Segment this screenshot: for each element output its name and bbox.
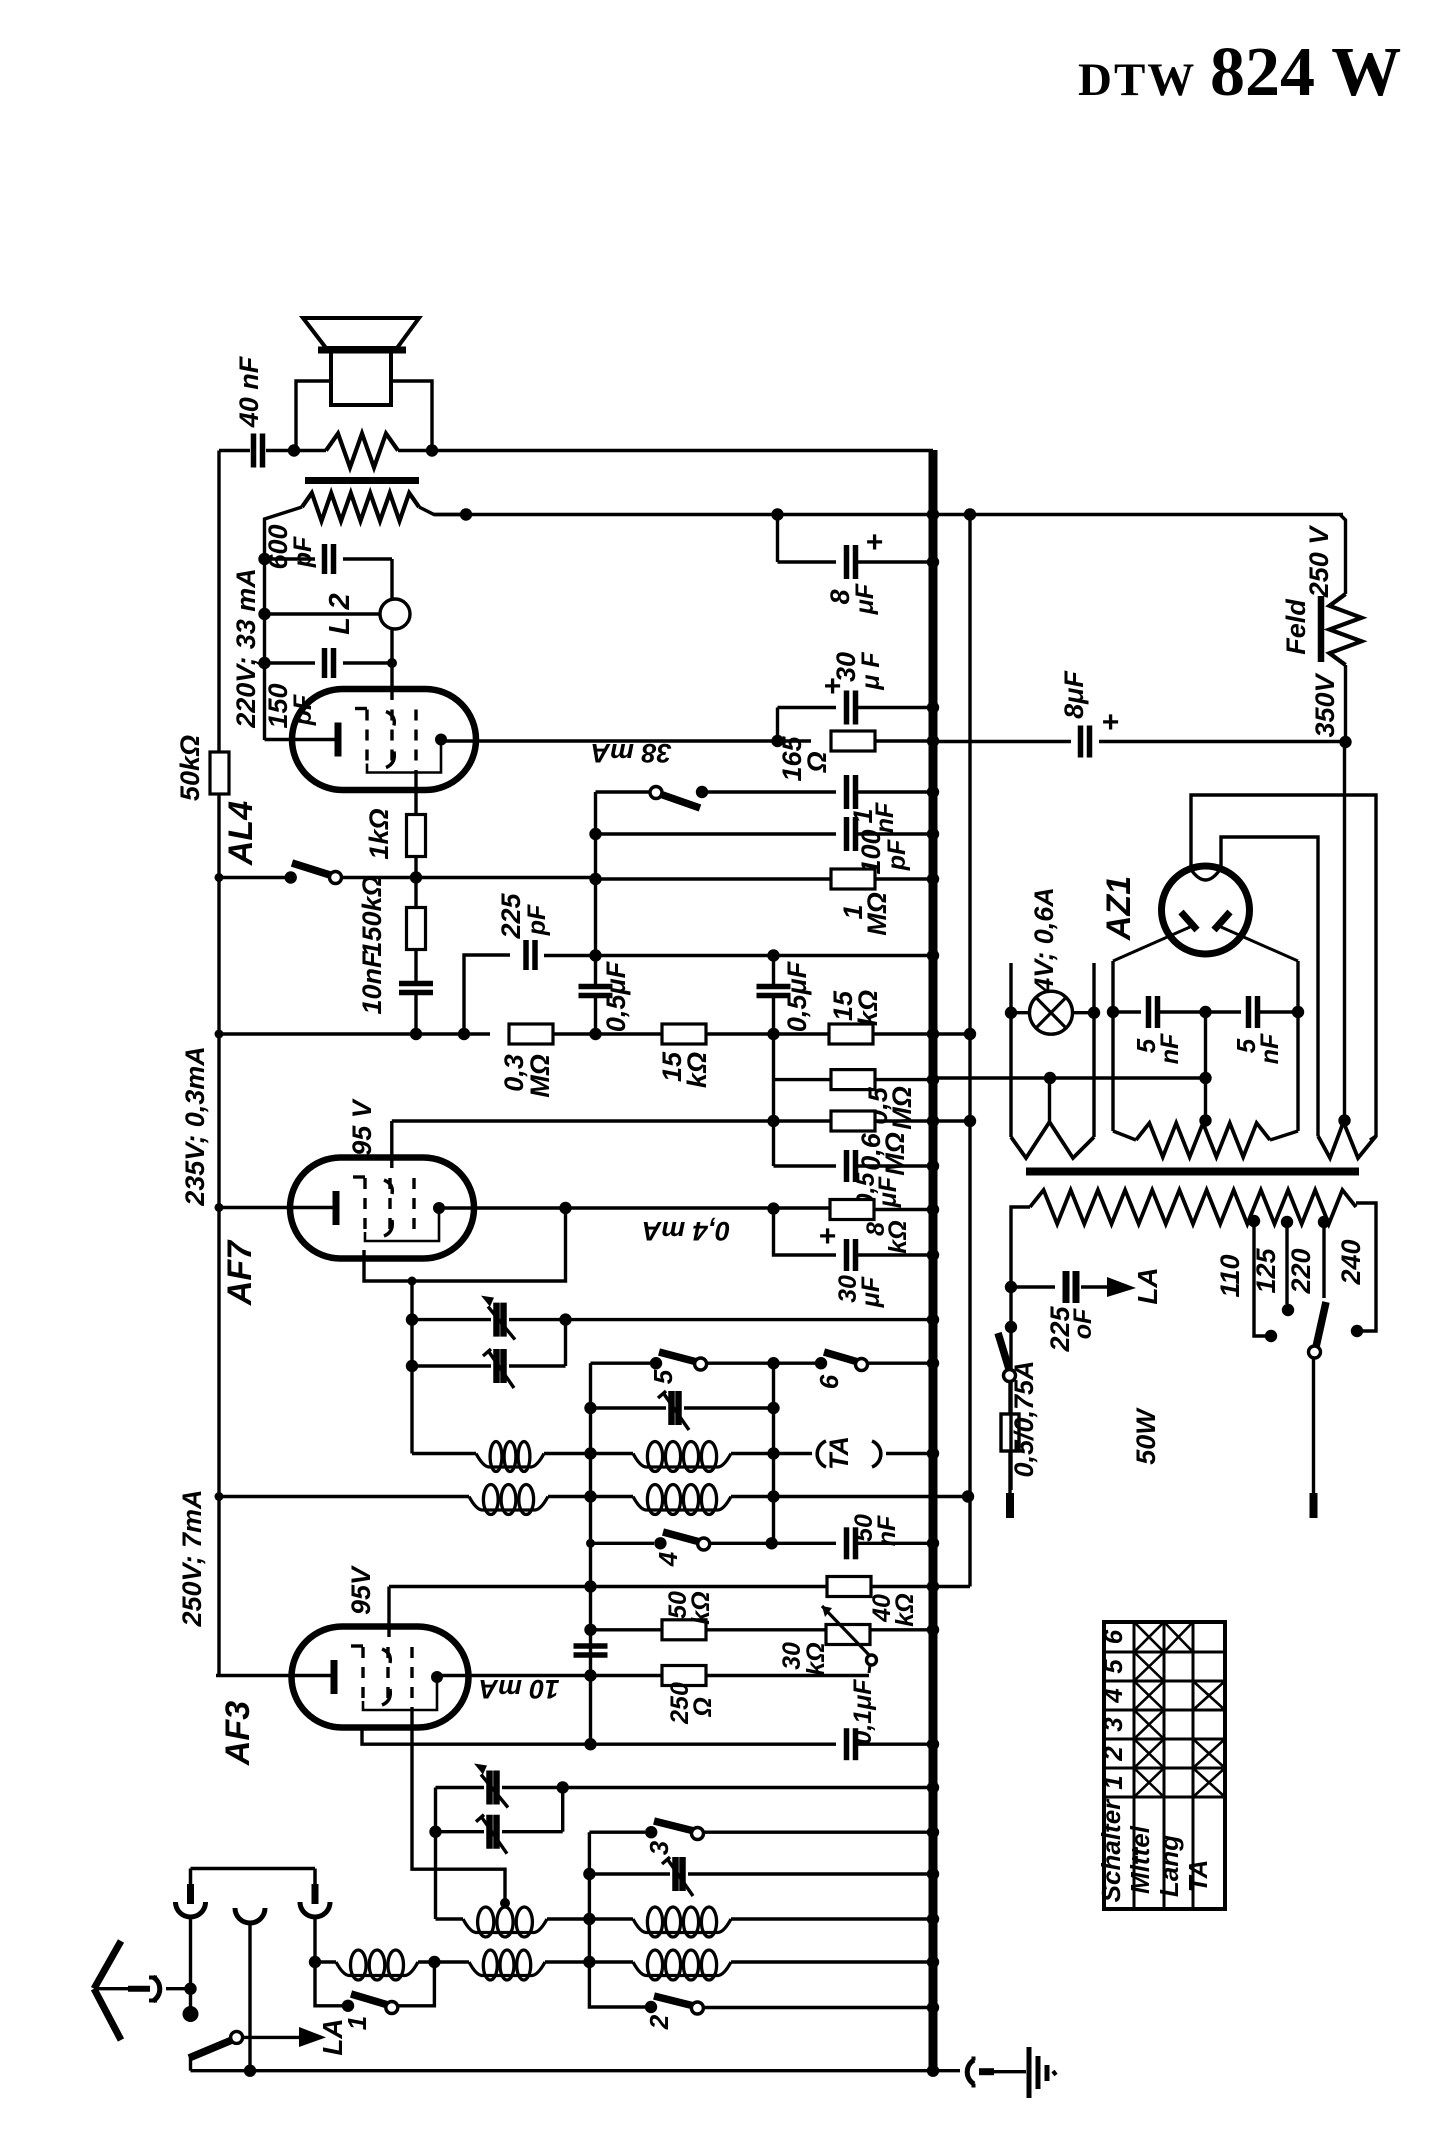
svg-text:Schalter: Schalter: [1096, 1798, 1126, 1902]
tube AF3 cathode: [431, 1671, 443, 1683]
arrow to LA mains: [1107, 1277, 1136, 1297]
node 5nF right: [1292, 1006, 1304, 1018]
switch 6 lever: [824, 1352, 858, 1362]
svg-text:95V: 95V: [346, 1565, 376, 1615]
svg-text:110: 110: [1215, 1254, 1245, 1297]
node trimmer3 left: [583, 1868, 595, 1880]
svg-text:AL4: AL4: [222, 801, 260, 866]
resistor 150k: [414, 878, 417, 908]
capacitor 5nF first: [1146, 996, 1152, 1028]
capacitor 1nF: [844, 775, 850, 809]
wire trimmer5 row y=1408: [589, 1363, 592, 1453]
tube AF7 grid dashes: [363, 1178, 366, 1238]
wire grid cap vertical: [390, 559, 393, 600]
node coil4 mid: [583, 1956, 595, 1968]
terminal blob A1: [183, 2006, 199, 2022]
node 1M left: [589, 873, 601, 885]
capacitor 8uF B+ filter: [776, 515, 779, 563]
capacitor 8uF second: [1078, 726, 1084, 758]
wire speaker right lead: [391, 381, 432, 450]
svg-text:3: 3: [1098, 1717, 1128, 1732]
svg-text:125: 125: [1251, 1247, 1281, 1293]
node coil row2 x773: [767, 1490, 779, 1502]
svg-text:pF: pF: [289, 536, 317, 568]
node heater CT: [1044, 1072, 1056, 1084]
svg-text:0,4 mA: 0,4 mA: [642, 1216, 731, 1246]
switch 1 lever: [351, 1994, 388, 2005]
vertical x=435 antenna chain: [434, 1788, 437, 1920]
svg-text:AF3: AF3: [219, 1701, 257, 1766]
wire primary right end to B+ line: [419, 507, 466, 515]
socket hook A2: [235, 1908, 265, 1923]
svg-text:MΩ: MΩ: [887, 1086, 917, 1130]
wire AL4 cathode lead / 38mA line: [441, 739, 778, 742]
wire trimmer row AF3-2 y=1831.7: [561, 1788, 564, 1832]
switch LA pivot: [231, 2031, 243, 2043]
tube AZ1 right anode: [1214, 912, 1230, 930]
tube AF7 cathode: [433, 1202, 445, 1214]
node 225pF junction: [1005, 1281, 1017, 1293]
tube AF7 internal suppressor link: [365, 1212, 439, 1241]
wire switch5 row y=1363: [591, 1361, 651, 1364]
node 0.5uF-2 top: [767, 949, 779, 961]
socket hook A3: [300, 1902, 330, 1917]
wire 1M row y=879: [596, 877, 832, 880]
wire AF3 plate lead: [216, 1674, 334, 1677]
capacitor 0.5uF first: [579, 984, 613, 990]
lamp L2: [380, 599, 410, 629]
earth connector hook: [939, 2069, 960, 2072]
node AZ1 fil CT: [1338, 1114, 1350, 1126]
node LA right: [428, 1956, 440, 1968]
tube AF7 envelope: [290, 1158, 474, 1259]
node antenna junction: [184, 1983, 196, 1995]
switch 1 contact: [342, 2000, 354, 2012]
wire 40k extension right: [933, 1585, 970, 1588]
socket hook A1: [176, 1902, 206, 1917]
wire bottom ground y=2070.7: [189, 2055, 192, 2071]
node CT y=1078: [1199, 1072, 1211, 1084]
wire lamp right down: [1092, 1013, 1095, 1137]
vertical link to coil row2 right: [968, 515, 971, 1587]
HV secondary winding: [1136, 1123, 1270, 1157]
heater winding 4V: [1011, 1122, 1094, 1158]
svg-text:1kΩ: 1kΩ: [364, 808, 394, 859]
capacitor 150pF: [265, 661, 316, 664]
node link y=515: [964, 508, 976, 520]
svg-text:+: +: [865, 526, 883, 559]
node lamp left: [1005, 1007, 1017, 1019]
node L2 left: [258, 608, 270, 620]
capacitor 225pF mains: [1063, 1271, 1070, 1303]
svg-text:0,1μF: 0,1μF: [849, 1679, 877, 1745]
svg-text:Mittel: Mittel: [1125, 1825, 1155, 1894]
primary tap 220: [1318, 1216, 1330, 1228]
svg-text:+: +: [818, 1220, 836, 1253]
capacitor 0.5uF AF3 (in x=590 line): [574, 1643, 608, 1649]
svg-text:kΩ: kΩ: [853, 990, 883, 1026]
node coil row1 mid: [584, 1447, 596, 1459]
wire AF7 screen route: [364, 1208, 566, 1281]
switch table X marks: [1134, 1622, 1164, 1652]
wire coil row1 y=1453.5: [412, 1452, 476, 1455]
svg-text:5: 5: [648, 1369, 678, 1384]
svg-text:4: 4: [1098, 1688, 1128, 1704]
svg-text:L 2: L 2: [324, 593, 356, 634]
wire bias row y=1078: [933, 1076, 1206, 1079]
node left rail 1496: [215, 1492, 224, 1501]
wire primary left end down: [265, 507, 303, 740]
wire switch1 row y=2005.8: [315, 1962, 342, 2006]
wire 5nF row y=1012: [1113, 1010, 1141, 1013]
node 5nF mid: [1199, 1006, 1211, 1018]
node 150pF left: [258, 657, 270, 669]
node 38mA junction: [771, 735, 783, 747]
wire AF3 grid cap: [387, 1587, 390, 1638]
wire primary right: [1356, 1203, 1376, 1331]
capacitor 30uF AF7 cathode: [774, 1209, 837, 1255]
switch table frame: [1104, 1622, 1225, 1909]
switch 7 contact: [285, 871, 297, 883]
tube AZ1 left anode: [1181, 912, 1197, 930]
plug pin A1: [189, 1869, 193, 1888]
arrow to LA: [242, 2036, 300, 2039]
node sw4 T: [586, 1539, 595, 1548]
svg-text:5: 5: [1098, 1659, 1128, 1674]
svg-text:MΩ: MΩ: [880, 1132, 910, 1176]
tube AF3 internal suppressor link: [363, 1681, 437, 1710]
node trimmer2 left: [406, 1360, 418, 1372]
mains switch lever: [998, 1333, 1009, 1369]
node coil3 mid: [583, 1913, 595, 1925]
switch 3 pivot: [692, 1828, 704, 1840]
node screen x590: [584, 1738, 596, 1750]
svg-text:nF: nF: [873, 1515, 901, 1546]
node LA left: [309, 1956, 321, 1968]
node 0.6M left: [767, 1115, 779, 1127]
wire AZ1 anode right vertical: [1296, 961, 1299, 1131]
output transformer core bar: [305, 477, 419, 484]
fuse: [1008, 1381, 1011, 1414]
svg-text:Lang: Lang: [1154, 1835, 1184, 1897]
svg-text:pF: pF: [523, 904, 551, 936]
coil ant1: [463, 1919, 547, 1933]
tube AZ1 filament arc: [1190, 868, 1221, 880]
coil IF2a: [476, 1454, 544, 1468]
speaker body: [331, 353, 391, 405]
tube AL4 grid dashes: [365, 710, 368, 770]
capacitor 0.1uF first: [591, 1742, 837, 1745]
wire 350V down to winding CT: [1343, 742, 1346, 1121]
svg-text:220: 220: [1286, 1248, 1316, 1294]
speaker LS cone: [303, 318, 419, 348]
node 240 contact: [1351, 1325, 1363, 1337]
node coil3 tap: [500, 1898, 510, 1908]
wire coil row3 y=1919: [436, 1917, 464, 1920]
tube AF3 grid dashes: [361, 1647, 364, 1707]
wire AF7 grid cap: [390, 1121, 393, 1168]
AZ1 filament winding: [1318, 1122, 1376, 1158]
node 150pF right: [387, 658, 397, 668]
capacitor 10nF: [399, 981, 433, 987]
node sw5 right: [767, 1357, 779, 1369]
wire selector to mains: [1312, 1358, 1315, 1493]
svg-text:40 nF: 40 nF: [234, 355, 264, 428]
coil IF2b: [469, 1497, 548, 1511]
trimmer capacitor T3: [672, 1857, 679, 1891]
capacitor 5nF second: [1246, 996, 1252, 1028]
switch 4 contact: [654, 1537, 666, 1549]
trimmer capacitor T2: [493, 1349, 500, 1383]
wire AZ1 filament lead right: [1221, 837, 1318, 1136]
svg-text:3: 3: [644, 1840, 674, 1855]
svg-text:μF: μF: [857, 1276, 885, 1308]
node 125 contact: [1282, 1304, 1294, 1316]
node 600pF left: [258, 553, 270, 565]
lamp 4V 0.6A: [1030, 991, 1073, 1034]
node bottom A2: [244, 2065, 256, 2077]
wire trimmer row 1 y=1319.6: [412, 1318, 491, 1321]
node OT right: [460, 508, 472, 520]
svg-text:kΩ: kΩ: [687, 1591, 715, 1624]
node 10nF bottom: [410, 1028, 422, 1040]
svg-text:LA: LA: [317, 2018, 348, 2055]
wire switch3 row y=1832.2: [589, 1830, 645, 1833]
svg-text:nF: nF: [1256, 1033, 1284, 1064]
node TA2 left: [429, 1826, 441, 1838]
resistor 165 ohm: [778, 739, 812, 742]
voltage selector lever: [1316, 1302, 1326, 1347]
resistor 15k first: [662, 1024, 706, 1044]
switch 2 lever: [654, 1996, 694, 2006]
node AF7 screen junction: [559, 1202, 571, 1214]
wire speaker left lead: [296, 381, 331, 450]
ground bus (chassis rail): [929, 450, 938, 2074]
svg-text:μF: μF: [851, 583, 879, 615]
ground symbol: [1027, 2047, 1032, 2098]
wire grid cap into AL4: [390, 663, 393, 700]
svg-text:AZ1: AZ1: [1100, 876, 1138, 941]
svg-text:8μF: 8μF: [1059, 670, 1089, 719]
svg-text:38 mA: 38 mA: [590, 738, 671, 768]
node sw4 right: [766, 1537, 778, 1549]
wire switch2 row y=2007: [589, 1962, 645, 2007]
trimmer capacitor TA1: [486, 1771, 493, 1805]
trimmer capacitor TA2: [486, 1815, 493, 1849]
node osc junction: [408, 1277, 417, 1286]
svg-text:+: +: [1101, 706, 1119, 739]
svg-text:μ F: μ F: [857, 652, 885, 691]
resistor 50k: [217, 451, 220, 753]
node link 1121: [964, 1115, 976, 1127]
wire 0.5M row y=1079.6: [774, 1078, 832, 1081]
svg-text:TA: TA: [1183, 1860, 1213, 1893]
wire coil row4 y=1962: [315, 1960, 336, 1963]
wire lamp stubs: [1009, 963, 1012, 1013]
trimmer capacitor T1: [493, 1303, 500, 1337]
svg-text:oF: oF: [1069, 1308, 1097, 1339]
switch LA lever: [189, 2040, 232, 2058]
wire trimmer row AF3-1 y=1787.5: [436, 1786, 485, 1789]
coil ant3: [469, 1962, 545, 1976]
node TA1 right: [557, 1781, 569, 1793]
node 50k left: [584, 1624, 596, 1636]
svg-text:6: 6: [814, 1374, 844, 1389]
node 0.5uF-1 bottom: [589, 1028, 601, 1040]
wire anode stopper row y=792: [594, 792, 597, 879]
svg-text:0,5μF: 0,5μF: [601, 960, 631, 1032]
switch 5 pivot: [695, 1358, 707, 1370]
mains pin left: [1006, 1493, 1014, 1518]
node lamp right: [1088, 1007, 1100, 1019]
node link 1034: [964, 1028, 976, 1040]
wire AZ1 filament lead left: [1191, 795, 1376, 1140]
wire grid RC row y=1034: [219, 1032, 490, 1035]
node bus bottom: [927, 2065, 939, 2077]
svg-text:kΩ: kΩ: [891, 1593, 919, 1626]
wire antenna vertical: [191, 1867, 316, 1870]
switch 7 pivot: [330, 872, 342, 884]
svg-text:350V: 350V: [1310, 672, 1340, 737]
field coil Feld winding: [1330, 594, 1362, 665]
coil ant2: [633, 1919, 731, 1933]
coil LA: [336, 1962, 418, 1976]
transformer core bar: [1026, 1168, 1359, 1176]
svg-text:TA: TA: [824, 1436, 854, 1470]
switch 2 pivot: [691, 2002, 703, 2014]
capacitor 100pF: [844, 817, 850, 851]
node 0.3M left: [458, 1028, 470, 1040]
tube AL4 anode plate: [335, 723, 342, 757]
pot 30k wiper terminal: [867, 1655, 877, 1665]
resistor hum-bucking coil: [326, 434, 398, 468]
svg-text:kΩ: kΩ: [682, 1052, 712, 1088]
wire AF3 screen route: [362, 1727, 591, 1744]
svg-text:kΩ: kΩ: [802, 1642, 830, 1675]
svg-text:2: 2: [644, 2014, 674, 2030]
svg-text:Ω: Ω: [689, 1697, 717, 1718]
mains switch pivot: [1004, 1370, 1016, 1382]
wire heater CT stub: [1048, 1078, 1051, 1124]
svg-text:225: 225: [496, 892, 526, 939]
resistor 15k second: [829, 1024, 873, 1044]
capacitor 0.5uF third: [772, 1034, 775, 1166]
switch 8 contact: [696, 786, 708, 798]
tube AF3 anode plate: [331, 1660, 338, 1694]
svg-text:4: 4: [653, 1551, 683, 1567]
switch 4 pivot: [698, 1538, 710, 1550]
primary winding: [1030, 1190, 1356, 1224]
svg-text:pF: pF: [883, 839, 911, 871]
node left rail 1207: [215, 1203, 224, 1212]
wire 165-ohm row to Feld (8uF line): [933, 740, 1071, 743]
primary tap 110: [1248, 1215, 1260, 1227]
svg-text:AF7: AF7: [221, 1239, 259, 1306]
switch 5 contact: [650, 1357, 662, 1369]
node trimmer1 right: [559, 1313, 571, 1325]
svg-text:Ω: Ω: [802, 751, 832, 773]
svg-text:240: 240: [1336, 1239, 1366, 1285]
wire AF3 grid line: [412, 1707, 505, 1901]
vertical x=773 TA chain: [772, 1363, 775, 1543]
svg-text:DTW: DTW: [1078, 54, 1196, 106]
switch 3 contact: [645, 1826, 657, 1838]
wire lamp left: [1011, 1011, 1029, 1014]
svg-text:95 V: 95 V: [347, 1098, 377, 1156]
potentiometer 30k: [826, 1625, 870, 1645]
svg-text:50kΩ: 50kΩ: [175, 735, 205, 801]
antenna symbol: [94, 1941, 121, 1989]
capacitor 40nF: [251, 434, 257, 468]
switch 6 pivot: [856, 1359, 868, 1371]
mains pin right: [1310, 1493, 1318, 1518]
plug pin A3: [313, 1869, 317, 1888]
svg-text:LA: LA: [1132, 1267, 1163, 1304]
switch 3 lever: [654, 1821, 694, 1831]
wire top feedback line y=450: [219, 449, 250, 452]
tube AL4 envelope: [292, 689, 476, 790]
wire 95V row AF3 y=1586.5: [389, 1585, 826, 1588]
node 5nF left: [1107, 1006, 1119, 1018]
wire AZ1 anode left vertical: [1111, 961, 1114, 1131]
switch 7 lever: [292, 863, 330, 875]
coil IF3a: [633, 1454, 731, 1468]
node 100pF left: [589, 828, 601, 840]
node left rail x 1034: [215, 1030, 224, 1039]
wire AF3 cathode row y=1675.5: [434, 1674, 662, 1677]
node AF7 cathode node: [767, 1202, 779, 1214]
capacitor 225pF: [464, 955, 510, 1034]
wire 225pF row: [1011, 1285, 1055, 1288]
pot 30k arrow: [822, 1606, 871, 1657]
svg-text:50W: 50W: [1131, 1407, 1161, 1465]
switch 1 pivot: [386, 2002, 398, 2014]
switch 4 lever: [663, 1532, 700, 1542]
wire trimmer3 row y=1874: [588, 1832, 591, 1962]
trimmer capacitor T5: [668, 1391, 675, 1425]
node coil row1 right: [767, 1447, 779, 1459]
node bus dots: [927, 508, 939, 520]
svg-text:nF: nF: [1156, 1033, 1184, 1064]
switch 5 lever: [659, 1352, 697, 1362]
tube AL4 cathode: [435, 734, 447, 746]
wire B+ corner to Feld: [1340, 515, 1346, 595]
tube AF7 anode plate: [333, 1191, 340, 1225]
wire lamp left down: [1009, 1013, 1012, 1137]
wire 0.6M row y=1121 (95V): [392, 1119, 831, 1122]
resistor 1k: [414, 770, 417, 814]
node speaker right junction: [426, 444, 438, 456]
svg-text:0,5μF: 0,5μF: [782, 960, 812, 1032]
coil IF3b: [633, 1497, 731, 1511]
svg-text:μF: μF: [874, 1176, 902, 1208]
node 95V x=590: [584, 1580, 596, 1592]
wire trimmer row 2 y=1366: [412, 1364, 491, 1367]
svg-text:1: 1: [1098, 1775, 1128, 1789]
switch 2 contact: [645, 2001, 657, 2013]
coil ant4: [633, 1962, 731, 1976]
capacitor 0.5uF second: [772, 956, 775, 986]
wire primary left: [1011, 1207, 1030, 1490]
node coil row2 right: [962, 1490, 974, 1502]
wire 50k row y=1629.8: [591, 1628, 663, 1631]
output transformer primary winding: [302, 493, 419, 521]
wire B+ 250V line y=515: [434, 513, 1343, 516]
wire coil row2 y=1496.5: [219, 1495, 469, 1498]
wire switch row y=877.5: [219, 876, 290, 879]
node AF3 cath x590: [584, 1669, 596, 1681]
svg-text:250V; 7mA: 250V; 7mA: [177, 1489, 207, 1627]
